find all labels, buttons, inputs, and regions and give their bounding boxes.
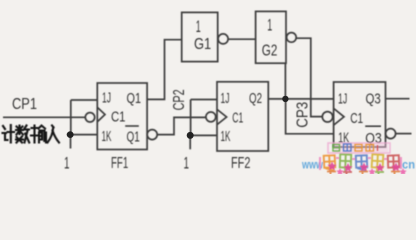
label 计数输入 (hand-drawn strokes) — [3, 125, 60, 143]
wire stub to logic 1 FF1 — [70, 135, 72, 149]
svg-text:FF1: FF1 — [111, 155, 128, 172]
gate G1 box — [182, 12, 218, 61]
wire Q1-bar to FF2 clock — [157, 117, 206, 134]
junction dot FF1 J/K — [67, 131, 74, 138]
wire G2 output to FF3 clock — [296, 38, 322, 116]
wire Q1 to G1 — [147, 40, 182, 100]
svg-text:CP2: CP2 — [171, 89, 188, 110]
svg-text:Q1: Q1 — [127, 90, 142, 107]
char 数 — [16, 126, 23, 135]
FF1 Q1-bar output bubble — [147, 130, 157, 140]
node J/K tie FF2 (vertical riser) — [190, 100, 192, 136]
svg-text:FF2: FF2 — [231, 155, 250, 172]
svg-text:Q1: Q1 — [127, 129, 140, 146]
wire Q2 to FF3 1J — [268, 98, 333, 100]
svg-text:1K: 1K — [221, 128, 231, 145]
wire Q2 riser down to FF3 1K — [286, 99, 334, 134]
svg-text:1K: 1K — [102, 128, 112, 145]
wire stub to logic 1 FF2 — [189, 135, 191, 149]
wire G1 to G2 — [228, 38, 255, 40]
svg-text:C1: C1 — [111, 109, 126, 126]
wire Q2 riser up to G2 — [284, 63, 286, 99]
background paper — [0, 0, 416, 174]
junction dot Q2 node — [282, 96, 288, 102]
gate G2 box — [256, 11, 286, 63]
wire Q3-bar output — [396, 133, 412, 135]
svg-text:1J: 1J — [338, 91, 347, 108]
svg-text:CP3: CP3 — [295, 102, 312, 128]
svg-text:1: 1 — [64, 154, 70, 173]
G1 output bubble — [218, 34, 228, 44]
svg-text:cn: cn — [402, 158, 415, 172]
FF3 clock edge triangle — [334, 109, 344, 126]
wire Q3 output — [386, 98, 410, 100]
char 输 — [31, 126, 38, 143]
FF1 clock edge triangle — [98, 108, 106, 122]
svg-text:G2: G2 — [262, 43, 278, 60]
FF3 Q3-bar output bubble — [386, 129, 396, 139]
watermark logo bottom-right — [301, 143, 415, 175]
svg-text:G1: G1 — [194, 36, 211, 53]
svg-text:1: 1 — [196, 17, 201, 36]
colorful char cells — [320, 154, 401, 171]
svg-text:C1: C1 — [232, 110, 243, 127]
FF2 clock bubble — [206, 112, 216, 122]
magenta star accents — [327, 162, 406, 176]
node J/K tie FF1 (vertical riser) — [70, 100, 72, 135]
flip-flop FF2 box — [217, 82, 268, 151]
svg-text:CP1: CP1 — [12, 96, 37, 113]
wire FF2 1K input — [191, 134, 217, 136]
flip-flop FF3 box — [334, 82, 386, 147]
wire FF1 1K input — [67, 134, 97, 136]
flip-flop FF1 box — [97, 83, 147, 150]
svg-text:1J: 1J — [221, 90, 230, 107]
wire FF2 1J input — [191, 99, 217, 101]
FF1 clock bubble — [85, 113, 94, 122]
svg-text:1: 1 — [184, 154, 190, 173]
FF2 clock edge triangle — [217, 110, 226, 125]
svg-text:Q2: Q2 — [249, 90, 262, 107]
svg-text:Q3: Q3 — [366, 91, 381, 108]
svg-text:C1: C1 — [350, 110, 363, 127]
FF3 clock bubble — [322, 112, 332, 122]
G2 output bubble — [287, 33, 297, 43]
wire FF1 1J input — [71, 99, 98, 101]
char 入 — [48, 126, 60, 143]
char 计 — [3, 126, 5, 129]
pink band — [328, 143, 390, 153]
svg-text:1J: 1J — [102, 89, 111, 106]
junction dot FF2 J/K — [187, 132, 194, 139]
wire CP1 input — [3, 116, 85, 118]
clipped bottom row hints — [327, 172, 400, 175]
small top chars — [333, 144, 378, 151]
svg-text:1: 1 — [267, 16, 272, 35]
